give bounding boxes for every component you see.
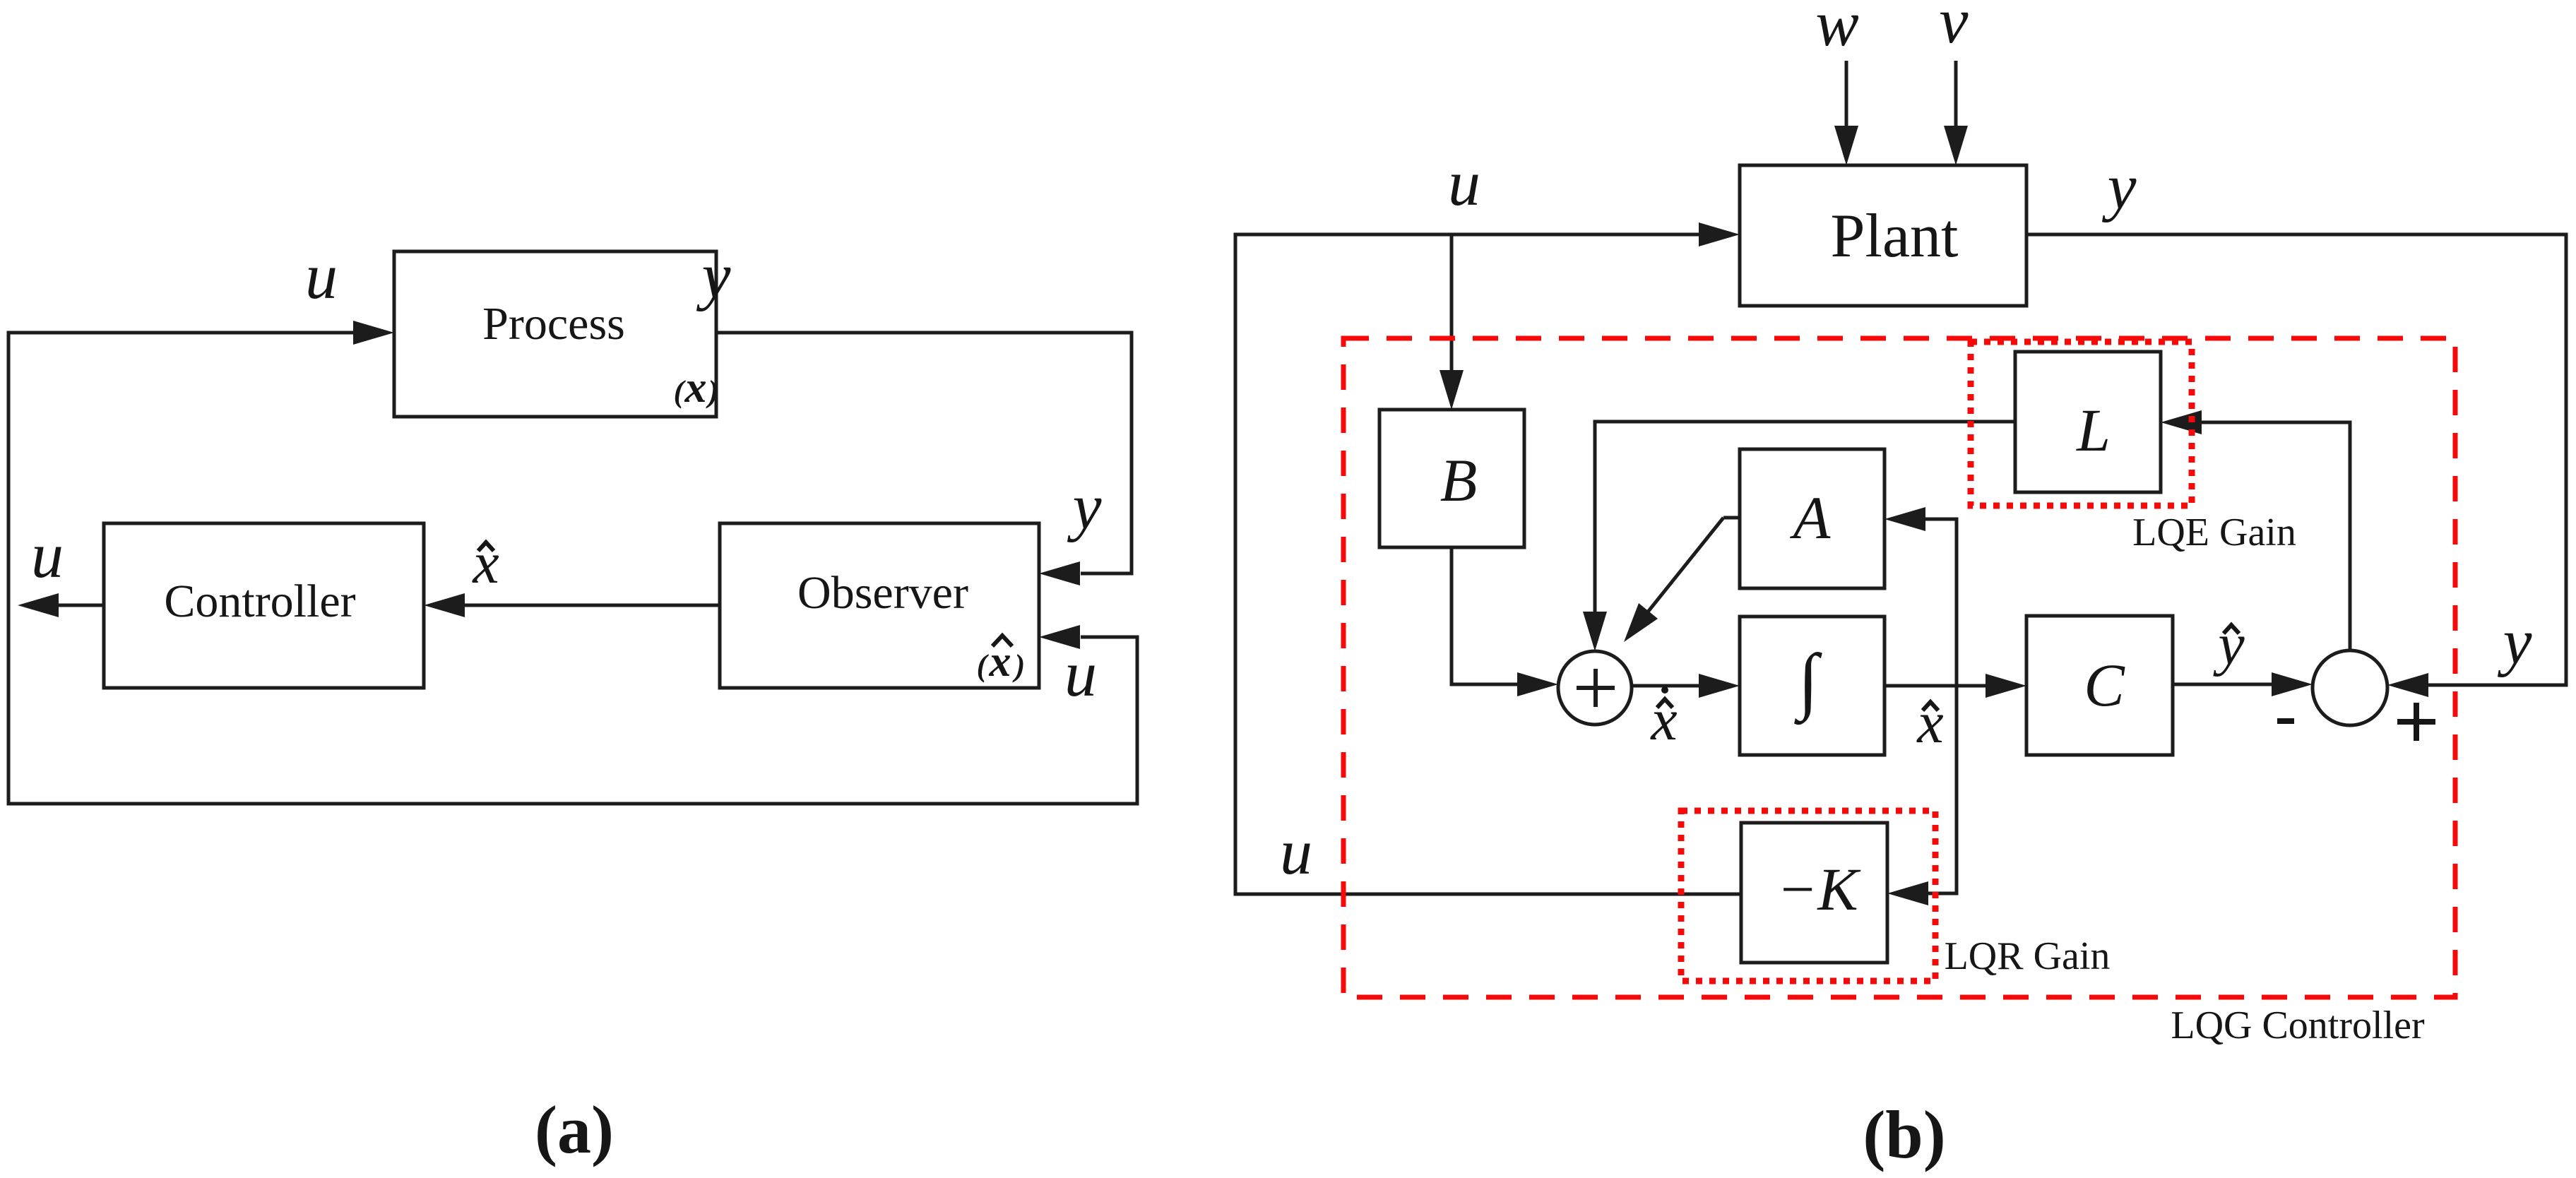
svg-text:x: x [1649, 687, 1677, 753]
svg-text:w: w [1815, 0, 1858, 59]
svg-text:(b): (b) [1863, 1097, 1945, 1172]
svg-text:Plant: Plant [1831, 202, 1959, 270]
svg-text:u: u [1448, 147, 1480, 219]
svg-text:A: A [1790, 484, 1831, 552]
svg-text:C: C [2084, 651, 2125, 719]
svg-text:−K: −K [1776, 855, 1861, 923]
svg-text:Controller: Controller [164, 576, 355, 627]
svg-text:y: y [696, 239, 731, 311]
svg-text:Process: Process [482, 298, 625, 350]
svg-text:B: B [1440, 446, 1478, 514]
svg-text:L: L [2075, 396, 2111, 464]
svg-text:LQE Gain: LQE Gain [2132, 511, 2296, 554]
svg-text:LQG Controller: LQG Controller [2171, 1004, 2425, 1047]
svg-text:(a): (a) [535, 1092, 614, 1167]
svg-text:y: y [1067, 470, 1102, 542]
svg-text:u: u [305, 240, 338, 312]
svg-text:u: u [1280, 816, 1312, 888]
svg-text:LQR Gain: LQR Gain [1945, 934, 2111, 978]
svg-text:Observer: Observer [797, 567, 968, 619]
svg-text:x: x [684, 364, 707, 412]
svg-text:y: y [2498, 605, 2532, 677]
svg-text:u: u [1064, 638, 1097, 710]
svg-text:y: y [2102, 150, 2137, 222]
svg-text:u: u [31, 519, 64, 591]
svg-text:v: v [1940, 0, 1969, 56]
